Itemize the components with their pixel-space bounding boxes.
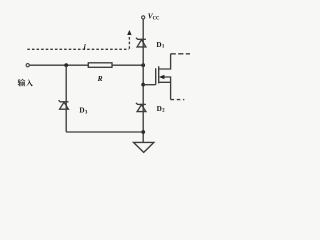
svg-text:D: D bbox=[157, 105, 162, 113]
Vcc terminal circle bbox=[142, 16, 145, 19]
resistor R (box) bbox=[88, 63, 112, 68]
svg-text:R: R bbox=[97, 74, 103, 83]
MOSFET Q1 (source lead) bbox=[159, 81, 171, 83]
junction node B: input net meets protection bus bbox=[141, 63, 145, 67]
diode D2 (clamp to ground) bbox=[136, 103, 146, 112]
junction node C: gate tap bbox=[141, 83, 145, 87]
wire: dashed current-path i (vertical run up to arrow) bbox=[128, 35, 130, 49]
input terminal circle bbox=[26, 64, 29, 67]
MOSFET Q1 (body lead with arrow) bbox=[164, 77, 171, 100]
ground symbol bbox=[134, 142, 154, 152]
svg-text:CC: CC bbox=[153, 16, 160, 21]
wire: protection bus from Vcc terminal down through D1, node B, gate tap, D2 to ground bbox=[142, 19, 144, 142]
svg-text:D: D bbox=[156, 41, 161, 49]
wire: node A down through D3 to bottom corner bbox=[65, 65, 67, 132]
label 输入 (input) bbox=[18, 79, 33, 87]
svg-text:i: i bbox=[84, 42, 87, 51]
svg-text:2: 2 bbox=[162, 109, 165, 114]
wire: bottom run from D3 branch to ground node bbox=[66, 131, 143, 133]
wire: gate lead to MOSFET bbox=[143, 84, 156, 86]
svg-text:D: D bbox=[79, 107, 84, 115]
MOSFET Q1 (body arrowhead) bbox=[159, 75, 165, 79]
svg-text:3: 3 bbox=[85, 110, 88, 115]
arrowhead of current-path i bbox=[127, 30, 131, 35]
diode D3 (input clamp) bbox=[59, 100, 69, 109]
svg-text:1: 1 bbox=[162, 45, 165, 50]
MOSFET Q1 (gate bar) bbox=[155, 68, 157, 84]
wire: dashed source connection to internal rail bbox=[171, 99, 185, 101]
MOSFET Q1 (drain lead) bbox=[159, 54, 171, 69]
MOSFET Q1 (channel bar) bbox=[158, 66, 160, 83]
wire: resistor R to node B bbox=[112, 64, 143, 66]
junction node: input wire / D3 branch bbox=[64, 63, 68, 67]
wire: dashed drain connection to internal rail bbox=[171, 53, 190, 55]
wire: dashed current-path i (horizontal run) bbox=[27, 48, 129, 50]
diode D1 (clamp to Vcc) bbox=[136, 38, 146, 47]
wire: input terminal to resistor R bbox=[29, 64, 88, 66]
junction node D: ground node bbox=[141, 130, 145, 134]
